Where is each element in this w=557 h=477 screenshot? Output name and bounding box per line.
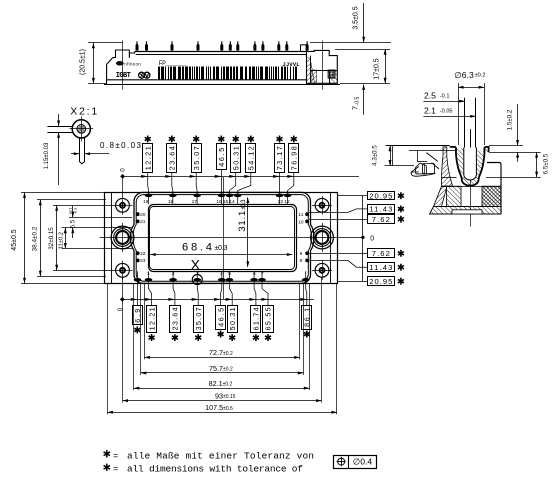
svg-text:32±0.15: 32±0.15 <box>48 227 55 250</box>
svg-text:alle Maße mit einer Toleranz v: alle Maße mit einer Toleranz von <box>127 450 314 461</box>
pin side lines <box>47 126 72 128</box>
flange hatching <box>306 58 314 83</box>
svg-text:35.07: 35.07 <box>192 146 201 170</box>
bottom box 61.74 <box>249 271 260 341</box>
svg-text:22: 22 <box>140 251 146 257</box>
chain dimension 75.7&#177;0.2 <box>141 364 303 375</box>
svg-text:82.1: 82.1 <box>209 379 223 388</box>
svg-text:75.7: 75.7 <box>209 364 223 373</box>
svg-text:45±0.5: 45±0.5 <box>11 229 18 250</box>
svg-text:∅6.3: ∅6.3 <box>454 70 474 80</box>
chain extension lines <box>108 277 337 414</box>
bottom box 46.5 <box>214 271 225 337</box>
module housing outline inner <box>133 195 311 282</box>
chain dimension 107.5&#177;0.5 <box>107 403 337 414</box>
svg-text:=: = <box>113 450 118 460</box>
svg-text:23.64: 23.64 <box>168 146 177 170</box>
svg-text:31.1: 31.1 <box>237 211 248 232</box>
corner mounting holes <box>113 196 133 215</box>
top box 23.64 <box>165 136 176 205</box>
side view pins <box>136 41 139 51</box>
bottom center press-fit circle <box>192 275 202 285</box>
svg-text:±0.2: ±0.2 <box>223 351 233 357</box>
pin shank <box>79 138 81 162</box>
dimension 3.5±0.5 <box>310 3 391 43</box>
svg-text:14: 14 <box>229 199 235 205</box>
side view right mounting flange section <box>306 50 337 83</box>
right box 11.43 <box>309 205 404 214</box>
svg-text:50.31: 50.31 <box>228 307 237 330</box>
svg-text:JJVVL: JJVVL <box>283 62 300 68</box>
svg-text:=: = <box>113 464 118 474</box>
svg-text:3.5±0.5: 3.5±0.5 <box>353 6 360 29</box>
svg-text:2.5: 2.5 <box>424 91 436 101</box>
svg-text:38.4±0.2: 38.4±0.2 <box>32 226 39 251</box>
svg-text:-0.3: -0.3 <box>74 208 78 214</box>
svg-text:-0.1: -0.1 <box>440 94 450 100</box>
svg-text:107.5: 107.5 <box>205 403 223 412</box>
svg-text:5.5: 5.5 <box>70 219 77 228</box>
lid recess rounded rect <box>149 205 297 272</box>
svg-text:11.43: 11.43 <box>369 263 392 272</box>
top box 76.98 <box>287 136 298 205</box>
svg-text:±0.3: ±0.3 <box>241 199 247 210</box>
svg-text:46.5: 46.5 <box>216 308 225 327</box>
dimension 31.1±0.3 <box>237 198 250 267</box>
left dimension 11±0.2 <box>59 228 133 250</box>
svg-text:(20.5±1): (20.5±1) <box>80 49 87 75</box>
right box 20.95 <box>337 191 404 200</box>
right box 7.62 <box>309 249 404 259</box>
dimension 17±0.5 <box>335 49 390 83</box>
svg-text:∅0.4: ∅0.4 <box>353 457 373 467</box>
left housing wall band <box>442 147 453 186</box>
side view module body outline <box>107 58 307 80</box>
chain dimension 93&#177;0.15 <box>123 391 322 402</box>
right box 20.95 <box>337 277 404 286</box>
svg-text:23.64: 23.64 <box>171 307 180 330</box>
clip cluster <box>392 146 394 166</box>
press-fit boss bell <box>450 147 489 186</box>
flange hole centerline <box>322 41 324 90</box>
svg-text:±0.5: ±0.5 <box>223 406 233 412</box>
svg-text:12: 12 <box>284 199 290 205</box>
svg-text:11.43: 11.43 <box>369 205 392 214</box>
svg-text:1.5±0.2: 1.5±0.2 <box>507 109 514 130</box>
svg-text:X: X <box>191 256 201 272</box>
svg-text:17: 17 <box>192 199 198 205</box>
press-fit pin lines <box>464 98 466 176</box>
svg-text:61.74: 61.74 <box>252 307 261 330</box>
svg-text:11±0.2: 11±0.2 <box>59 232 65 249</box>
svg-text:-0.5: -0.5 <box>354 96 360 105</box>
dimension (20.5±1) <box>80 43 124 84</box>
side view top clip bump right <box>301 45 307 52</box>
svg-text:0: 0 <box>120 168 127 172</box>
svg-text:FP______: FP______ <box>159 60 187 67</box>
svg-text:11: 11 <box>298 212 303 218</box>
svg-text:20.95: 20.95 <box>369 191 392 200</box>
Infineon logo <box>116 61 124 66</box>
svg-text:20: 20 <box>140 212 146 218</box>
svg-text:IGBT: IGBT <box>116 72 131 80</box>
insert blocks <box>447 186 462 206</box>
svg-text:65.55: 65.55 <box>264 307 273 330</box>
left dimension 32±0.15 <box>48 205 113 270</box>
top box 12.21 <box>141 136 152 205</box>
top box 50.31 <box>229 136 240 205</box>
side view top clip bump left <box>116 50 130 58</box>
left mounting hole centerline (side view) <box>122 41 124 90</box>
svg-text:54.12: 54.12 <box>247 146 256 170</box>
top box 46.5 <box>215 136 227 205</box>
svg-text:nfineon: nfineon <box>124 61 141 66</box>
top box 73.17 <box>273 136 285 205</box>
bottom box 23.64 <box>168 271 180 341</box>
svg-text:23: 23 <box>140 258 146 264</box>
bottom box 86.1 <box>300 271 311 337</box>
svg-text:7.62: 7.62 <box>372 215 390 224</box>
svg-text:2.1: 2.1 <box>424 105 436 115</box>
svg-text:72.7: 72.7 <box>209 348 223 357</box>
dimension 68.4±0.3 <box>150 242 292 256</box>
svg-text:7: 7 <box>261 271 264 277</box>
top row pins <box>145 194 153 198</box>
right box 7.62 <box>309 215 404 224</box>
tolerance frame <box>334 456 377 469</box>
svg-text:8: 8 <box>300 258 303 264</box>
svg-text:1.15±0.03: 1.15±0.03 <box>44 142 50 169</box>
side pins left/right <box>136 212 140 216</box>
svg-text:20.95: 20.95 <box>369 277 392 286</box>
dimension 0.8±0.03 <box>71 141 142 155</box>
top box 54.12 <box>238 136 256 205</box>
top datum line with 0 <box>120 168 360 196</box>
top box 35.07 <box>190 136 202 205</box>
svg-text:±0.3: ±0.3 <box>215 245 228 252</box>
bottom box 6.9 <box>131 271 143 333</box>
svg-text:21: 21 <box>140 219 146 225</box>
svg-text:0: 0 <box>370 236 374 243</box>
svg-text:-0.05: -0.05 <box>440 109 453 115</box>
svg-text:19: 19 <box>143 199 149 205</box>
svg-text:±0.2: ±0.2 <box>223 382 233 388</box>
svg-text:±0.2: ±0.2 <box>475 73 486 79</box>
vertical centerline of module <box>223 177 225 299</box>
svg-text:76.98: 76.98 <box>290 146 299 170</box>
left dimension 38.4±0.2 <box>32 200 107 277</box>
svg-text:35.07: 35.07 <box>194 307 203 330</box>
svg-text:all dimensions with tolerance: all dimensions with tolerance of <box>127 464 303 475</box>
right box 11.43 <box>309 260 404 272</box>
svg-text:7: 7 <box>351 106 360 110</box>
svg-text:93: 93 <box>215 391 223 400</box>
body right of boss <box>487 163 501 215</box>
svg-text:15: 15 <box>223 199 229 205</box>
bottom box 65.55 <box>262 271 274 341</box>
cavity bottom lines <box>441 177 457 179</box>
svg-text:7.62: 7.62 <box>372 249 390 258</box>
certification marks <box>139 72 145 78</box>
svg-text:4.3±0.5: 4.3±0.5 <box>371 145 378 166</box>
svg-text:±0.2: ±0.2 <box>223 367 233 373</box>
svg-text:73.17: 73.17 <box>275 146 284 170</box>
bottom box 35.07 <box>192 271 204 341</box>
svg-text:12.21: 12.21 <box>147 307 156 330</box>
bottom box 12.21 <box>145 271 156 341</box>
chain dimension 72.7&#177;0.2 <box>144 348 299 359</box>
svg-text:50.31: 50.31 <box>231 146 240 170</box>
large screw holes <box>111 223 134 252</box>
bottom row pins <box>134 278 142 282</box>
svg-text:17±0.5: 17±0.5 <box>374 58 381 79</box>
svg-text:10: 10 <box>298 220 304 226</box>
svg-text:13: 13 <box>278 199 284 205</box>
chain dimension 82.1&#177;0.2 <box>134 379 309 390</box>
svg-text:X2:1: X2:1 <box>70 106 97 118</box>
dimension 1.15±0.03 <box>44 114 60 185</box>
bottom flange <box>430 207 502 215</box>
svg-text:46.5: 46.5 <box>217 148 226 167</box>
dimension 7-0.5 <box>351 84 366 114</box>
barcode <box>158 67 297 80</box>
bottom box 50.31 <box>226 271 238 341</box>
svg-text:68.4: 68.4 <box>182 242 212 254</box>
horizontal centerline through screw holes <box>100 237 363 239</box>
svg-text:9: 9 <box>300 251 303 257</box>
pin cross-section circle <box>72 120 90 138</box>
module housing outline outer <box>131 192 314 283</box>
svg-text:12.21: 12.21 <box>143 146 152 170</box>
svg-text:6.5±0.5: 6.5±0.5 <box>543 153 550 174</box>
svg-text:±0.15: ±0.15 <box>223 394 236 400</box>
left dimension 45±0.5 <box>11 192 105 283</box>
left dimension 5.5 +0.1 -0.3 <box>69 206 133 238</box>
baseplate outline <box>105 193 338 284</box>
